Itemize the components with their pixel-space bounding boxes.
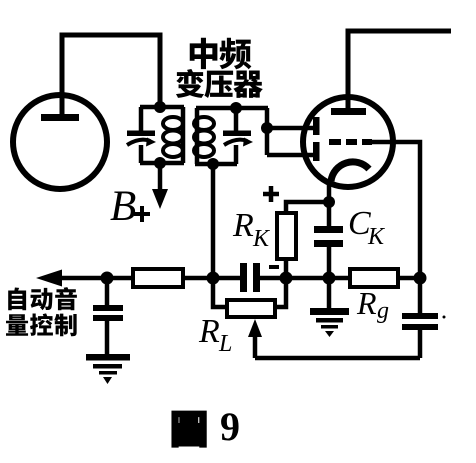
V2 grid (dashed) — [329, 139, 341, 145]
wire cathode down to node K — [327, 183, 332, 202]
resistor Rg — [350, 269, 398, 287]
label - (polarity) — [269, 265, 279, 269]
node grid-rail junction — [414, 272, 427, 285]
secondary trimmer capacitor C2 — [234, 108, 239, 164]
AVC output arrow — [36, 270, 62, 287]
RL wiper arrow — [253, 330, 258, 358]
node: diode feed junction — [261, 122, 273, 134]
wire — [183, 276, 240, 281]
capacitor C4 (AVC bypass) — [105, 278, 110, 306]
primary coil L1 — [163, 117, 183, 130]
capacitor CK — [327, 202, 332, 278]
svg-text:K: K — [367, 224, 386, 250]
wire secondary top to V2 diode plates — [267, 108, 313, 155]
capacitor C5 (grid coupling, right rail) — [418, 278, 423, 358]
potentiometer RL — [227, 300, 275, 317]
svg-text:L: L — [218, 331, 232, 357]
svg-text:R: R — [356, 285, 377, 321]
label 自动音量控制 (AVC) — [8, 287, 26, 310]
V1 plate — [41, 114, 79, 121]
IF transformer primary tank: rails — [140, 107, 184, 163]
svg-text:g: g — [377, 298, 389, 324]
node: secondary top — [230, 102, 242, 114]
wire secondary bottom down to AVC line — [211, 164, 216, 278]
resistor RK — [277, 213, 296, 259]
wire RL right up to AVC line — [275, 278, 286, 307]
wire CK node to ground — [327, 278, 332, 310]
caption 圖 9 — [173, 412, 206, 447]
wire node K to RK top — [286, 202, 329, 213]
svg-text:B: B — [110, 183, 136, 230]
svg-text:K: K — [252, 226, 271, 252]
wire V2 plate to top right — [348, 31, 451, 111]
B+ feed arrow — [158, 163, 163, 192]
node CK/ground junction — [323, 272, 336, 285]
node detector junction — [207, 272, 220, 285]
secondary coil L2 — [194, 117, 214, 130]
svg-text:R: R — [198, 313, 220, 350]
label 中频变压器 (IF transformer) — [190, 38, 218, 69]
V2 cathode — [331, 162, 369, 181]
node AVC/filter junction — [101, 272, 114, 285]
node: secondary bottom — [207, 158, 219, 170]
ground (left) — [86, 354, 130, 361]
wire wiper to bottom rail — [255, 356, 420, 361]
wire grid to right rail — [372, 142, 420, 278]
node K (cathode) — [323, 196, 335, 208]
V2 diode plate lower — [313, 142, 320, 161]
series capacitor C3 — [240, 263, 247, 292]
node: primary top — [154, 101, 166, 113]
svg-text:9: 9 — [220, 404, 240, 449]
label + (cathode bias polarity) — [263, 186, 279, 202]
node: primary bottom — [154, 157, 166, 169]
wire V1 plate to IF transformer primary top — [62, 35, 160, 116]
V2 anode plate — [331, 108, 366, 115]
ground (right) — [310, 308, 349, 315]
V2 diode plate upper — [313, 117, 320, 135]
node RK bottom junction — [280, 272, 293, 285]
IF transformer secondary tank: rails — [195, 108, 268, 164]
tube V2 envelope — [303, 97, 393, 187]
tube V1 (diode) envelope — [13, 95, 107, 189]
resistor R1 (AVC filter) — [133, 269, 183, 287]
wire — [398, 276, 420, 281]
wire to RL left — [213, 278, 227, 307]
primary trimmer capacitor C1 — [139, 107, 144, 163]
print speck — [443, 316, 446, 319]
wire — [260, 276, 350, 281]
svg-text:R: R — [232, 207, 254, 244]
wire AVC line — [52, 276, 133, 281]
